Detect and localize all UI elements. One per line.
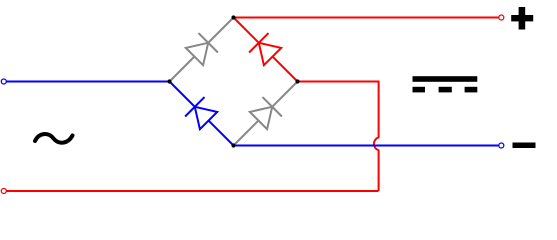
wire: node D to minus output terminal (blue) <box>234 145 499 147</box>
DC symbol: solid bar <box>413 76 478 82</box>
wire: vertical red riser with crossover hop over blue wire <box>374 82 379 192</box>
wire: AC input top terminal to node A (blue) <box>6 81 169 83</box>
AC input terminal (bottom-left, open circle) <box>1 189 6 194</box>
label: plus sign at positive output <box>511 7 533 30</box>
diode D2 (red, conducts C to B) <box>249 33 281 65</box>
node C (right junction dot) <box>295 79 299 83</box>
wire: node A to node B (gray bridge side) <box>170 18 234 82</box>
label: minus sign at negative output <box>513 143 536 149</box>
node A (left junction dot) <box>167 79 171 83</box>
wire: node C to vertical riser (red) <box>298 81 380 83</box>
AC input terminal (top-left, open circle) <box>1 79 6 84</box>
AC symbol (tilde) <box>35 134 73 143</box>
node D (bottom junction dot) <box>231 143 235 147</box>
DC output terminal minus (open circle) <box>499 143 504 148</box>
wire: node C to node B (red bridge side, conducting) <box>234 18 298 82</box>
wire: AC input bottom terminal to corner under bridge (red) <box>6 190 378 192</box>
diode D1 (gray, conducts A to B) <box>186 33 218 65</box>
wire: node B to plus output terminal (red) <box>234 17 499 19</box>
wire: node D to node C (gray bridge side) <box>234 82 298 146</box>
diode D3 (blue, conducts D to A) <box>185 97 217 129</box>
DC symbol: dashed bar (3 dashes) <box>413 87 426 93</box>
DC output terminal plus (open circle) <box>499 15 504 20</box>
node B (top junction dot) <box>231 15 235 19</box>
diode D4 (gray, conducts D to C) <box>250 97 282 129</box>
wire: node D to node A (blue bridge side, conducting) <box>170 82 234 146</box>
